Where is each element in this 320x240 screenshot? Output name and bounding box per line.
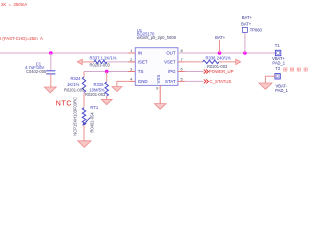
- wire T2 to ground: [265, 76, 275, 83]
- port arrow VSET (output): [236, 59, 241, 64]
- svg-text:5: 5: [181, 76, 184, 81]
- svg-text:GND: GND: [138, 79, 148, 84]
- svg-text:BAT+: BAT+: [215, 35, 226, 40]
- svg-text:I (FAST-CHG)=25m A: I (FAST-CHG)=25m A: [0, 36, 43, 41]
- svg-text:T1: T1: [275, 43, 281, 48]
- wire RT1 bottom lead: [83, 125, 85, 141]
- svg-text:NTC: NTC: [56, 101, 72, 108]
- wire BAT+ flag stub: [219, 40, 221, 53]
- svg-text:C_STATUS: C_STATUS: [210, 79, 232, 84]
- pad T2: [275, 74, 280, 79]
- svg-text:R337 1.2K/1%: R337 1.2K/1%: [90, 56, 117, 61]
- wire GND pin 4: [117, 81, 128, 86]
- ground below R325: [101, 99, 112, 104]
- wire R336 right lead: [219, 61, 236, 63]
- svg-text:7: 7: [181, 57, 184, 62]
- pad T1: [275, 50, 280, 55]
- wire R325 top lead: [106, 72, 108, 83]
- port arrow ISET (input): [77, 59, 82, 64]
- svg-text:STAT: STAT: [165, 79, 176, 84]
- svg-text:R324: R324: [71, 76, 82, 81]
- wire ISET left lead: [82, 61, 94, 63]
- svg-text:t: t: [86, 118, 88, 123]
- svg-text:R336 240/1%: R336 240/1%: [206, 55, 232, 60]
- svg-text:BAT+: BAT+: [242, 15, 253, 20]
- svg-text:POWER_UP: POWER_UP: [209, 69, 234, 74]
- node TS junction: [105, 70, 109, 74]
- svg-text:1: 1: [130, 48, 133, 53]
- port chevrons C_STATUS: [204, 79, 209, 83]
- pin 8 stub: [178, 52, 185, 54]
- pin 6 stub: [178, 71, 185, 73]
- port chevrons POWER_UP: [204, 70, 209, 74]
- svg-text:wson8_p5_2p0_h008: wson8_p5_2p0_h008: [137, 35, 177, 40]
- pin 3 stub: [128, 71, 135, 73]
- capacitor C1: [46, 71, 55, 74]
- resistor R337: [94, 60, 107, 63]
- annotation text battery pads (chinese): [284, 68, 308, 71]
- svg-text:4: 4: [130, 76, 133, 81]
- thermistor RT1: [82, 108, 90, 126]
- svg-text:2K = 250mA: 2K = 250mA: [1, 2, 27, 7]
- wire R325 bottom lead: [106, 96, 108, 99]
- svg-text:C0402-005: C0402-005: [26, 69, 47, 74]
- svg-text:2: 2: [130, 57, 133, 62]
- resistor R325: [105, 82, 108, 96]
- pin 2 stub: [128, 61, 135, 63]
- svg-text:VSET: VSET: [164, 59, 176, 64]
- svg-text:ISET: ISET: [138, 59, 148, 64]
- svg-text:/PG: /PG: [168, 69, 176, 74]
- svg-text:TP060: TP060: [250, 28, 263, 33]
- svg-text:PAD_1: PAD_1: [272, 60, 285, 65]
- op IC U1 BQ25170 body: [135, 48, 178, 86]
- ground below RT1: [78, 141, 91, 148]
- svg-text:R0201-003: R0201-003: [90, 62, 111, 67]
- svg-text:R0201-003: R0201-003: [64, 88, 85, 93]
- svg-text:3: 3: [130, 67, 133, 72]
- svg-text:OUT: OUT: [166, 50, 176, 55]
- wire ISET to pin 2: [107, 61, 135, 63]
- svg-text:T2: T2: [275, 66, 281, 71]
- svg-text:R0201-003: R0201-003: [85, 92, 106, 97]
- wire OUT rail: [178, 52, 276, 54]
- pin 4 stub: [128, 80, 135, 82]
- pin 9 stub: [159, 85, 161, 103]
- wire STAT net: [185, 80, 204, 82]
- wire TP060 branch: [244, 32, 246, 53]
- ground below C1: [44, 87, 56, 93]
- wire R324 top lead: [83, 72, 85, 78]
- svg-text:9: 9: [156, 86, 159, 91]
- pin 5 stub: [178, 80, 185, 82]
- wire VSET lead: [185, 61, 203, 63]
- wire IN rail: [0, 52, 135, 54]
- svg-text:NCP15XH103F03RC: NCP15XH103F03RC: [73, 97, 78, 136]
- wire C1 top: [50, 53, 52, 71]
- wire /PG net: [185, 71, 204, 73]
- svg-text:8: 8: [181, 48, 184, 53]
- testpoint TP060: [242, 27, 247, 32]
- ground at T2: [259, 83, 272, 89]
- node junction at C1: [49, 51, 53, 55]
- svg-text:1K/1%: 1K/1%: [67, 82, 80, 87]
- ground below pin 9: [154, 104, 166, 110]
- resistor R324: [82, 77, 85, 92]
- resistor R336: [203, 60, 219, 63]
- ground at pin 4: [112, 87, 122, 92]
- svg-text:IN: IN: [138, 50, 142, 55]
- svg-text:PAD_1: PAD_1: [275, 88, 288, 93]
- pin 1 stub: [128, 52, 135, 54]
- svg-text:RT1: RT1: [90, 105, 99, 110]
- svg-text:TS: TS: [138, 69, 144, 74]
- svg-text:BAT+: BAT+: [241, 21, 252, 26]
- svg-text:R0402-004: R0402-004: [89, 112, 94, 133]
- svg-text:VSS: VSS: [156, 75, 161, 84]
- pin 7 stub: [178, 61, 185, 63]
- node junction BAT+ flag: [218, 51, 222, 55]
- node junction TP branch: [243, 51, 247, 55]
- wire TS net horizontal: [84, 71, 135, 73]
- wire C1 bottom: [50, 74, 52, 87]
- svg-text:6: 6: [181, 67, 184, 72]
- wire R324 to RT1: [83, 92, 85, 107]
